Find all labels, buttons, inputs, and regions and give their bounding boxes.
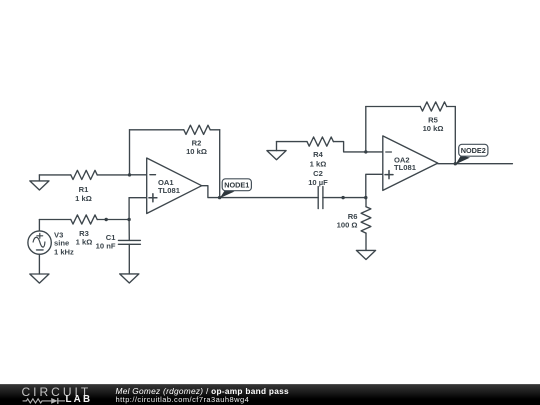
- node dot on C2 wire: [341, 196, 344, 199]
- capacitor C2: [318, 187, 366, 209]
- wire OA1 plus input down to R3: [128, 198, 130, 220]
- op-amp U2 OA2: [366, 136, 438, 198]
- wire OA2 output: [438, 163, 513, 165]
- node dot R1/R2/OA1- junction: [128, 173, 131, 176]
- label R3 value: [76, 229, 93, 247]
- footer url line: [116, 395, 250, 404]
- svg-text:10 µF: 10 µF: [308, 178, 328, 187]
- wire OA1 output to NODE1: [202, 186, 220, 198]
- logo resistor-diode mark: [22, 396, 68, 405]
- label R2 value: [186, 139, 207, 156]
- svg-text:10 kΩ: 10 kΩ: [423, 124, 444, 133]
- svg-text:1 kΩ: 1 kΩ: [75, 194, 92, 203]
- resistor R4: [277, 137, 366, 152]
- label V3 value: [54, 231, 74, 257]
- label R5 value: [423, 116, 444, 133]
- svg-text:10 kΩ: 10 kΩ: [186, 147, 207, 156]
- node dot R4/R5/OA2- junction: [364, 150, 367, 153]
- label C2 value: [308, 169, 328, 187]
- wire R5 right vertical to NODE2: [454, 107, 456, 164]
- voltage source V3: [28, 220, 51, 275]
- svg-text:1 kHz: 1 kHz: [54, 247, 74, 256]
- node flag NODE2: [456, 144, 488, 164]
- ground G2 (below V3): [30, 274, 49, 283]
- label C1 value: [96, 233, 117, 251]
- node junction dots: [105, 150, 457, 221]
- svg-text:NODE1: NODE1: [224, 181, 249, 190]
- resistor R6: [361, 198, 371, 251]
- label R4 value: [310, 150, 327, 168]
- svg-text:NODE2: NODE2: [461, 146, 486, 155]
- resistor R1: [39, 170, 129, 179]
- svg-text:10 nF: 10 nF: [96, 242, 116, 251]
- wire R2 left vertical: [129, 130, 131, 175]
- label OA2: [394, 156, 417, 173]
- node flag NODE1: [220, 179, 252, 198]
- ground G1 (left of R1): [30, 175, 49, 190]
- ground G4 (left of R4): [267, 142, 286, 160]
- svg-text:1 kΩ: 1 kΩ: [310, 160, 327, 169]
- wire R2 right vertical to NODE1: [219, 130, 221, 198]
- capacitor C1: [118, 220, 140, 274]
- label R6 value: [337, 212, 358, 229]
- op-amp U1 OA1: [129, 158, 202, 214]
- resistor R5: [366, 102, 456, 111]
- node dot on R3 wire: [105, 218, 108, 221]
- resistor R2: [130, 125, 220, 134]
- ground G5 (below R6): [356, 250, 375, 259]
- node dot R5/output NODE2 junction: [454, 162, 457, 165]
- svg-text:C2: C2: [313, 169, 323, 178]
- node dot NODE1 junction: [218, 196, 221, 199]
- svg-text:R4: R4: [313, 150, 323, 159]
- wire R5 left vertical: [365, 107, 367, 152]
- svg-text:R1: R1: [79, 185, 89, 194]
- svg-text:1 kΩ: 1 kΩ: [76, 237, 93, 246]
- label OA1: [158, 178, 181, 195]
- svg-text:TL081: TL081: [158, 186, 181, 195]
- wire NODE1 to C2: [220, 197, 319, 199]
- svg-text:TL081: TL081: [394, 163, 417, 172]
- svg-text:100 Ω: 100 Ω: [337, 221, 358, 230]
- label R1 value: [75, 185, 92, 203]
- logo LAB text: [66, 394, 93, 405]
- footer bar: [0, 384, 540, 405]
- node dot R3/C1/OA1+ junction: [127, 218, 130, 221]
- logo CIRCUIT text: [22, 385, 92, 399]
- ground G3 (below C1): [120, 274, 139, 283]
- node dot C2/R6/OA2+ junction: [364, 196, 367, 199]
- resistor R3: [39, 215, 129, 224]
- footer title line: [116, 386, 289, 396]
